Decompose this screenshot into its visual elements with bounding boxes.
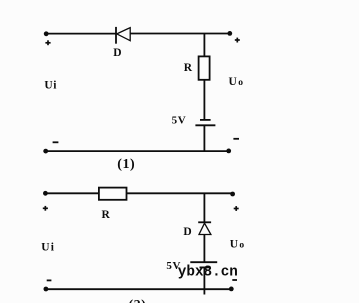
svg-text:i: i: [51, 242, 55, 254]
svg-text:U: U: [230, 238, 239, 250]
svg-text:U: U: [41, 242, 50, 254]
svg-text:U: U: [229, 76, 238, 88]
svg-text:5V: 5V: [172, 115, 187, 127]
svg-text:i: i: [53, 80, 57, 92]
svg-text:R: R: [184, 62, 193, 74]
svg-text:D: D: [183, 226, 191, 238]
svg-text:o: o: [239, 240, 244, 250]
svg-text:ybx8.cn: ybx8.cn: [178, 265, 238, 281]
svg-text:U: U: [44, 80, 53, 92]
svg-text:R: R: [102, 209, 111, 221]
svg-text:D: D: [113, 47, 121, 59]
svg-text:o: o: [238, 78, 243, 88]
svg-text:(2): (2): [129, 298, 147, 303]
svg-text:(1): (1): [117, 157, 135, 172]
